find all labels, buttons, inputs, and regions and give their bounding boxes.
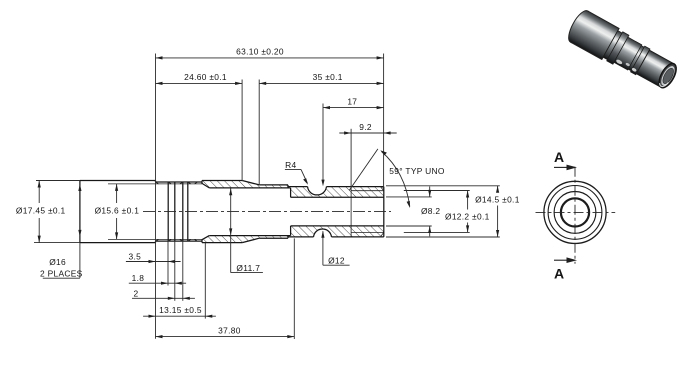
svg-text:A: A <box>554 149 564 165</box>
svg-text:Ø8.2: Ø8.2 <box>421 206 440 216</box>
svg-text:3.5: 3.5 <box>128 251 141 261</box>
svg-text:2 PLACES: 2 PLACES <box>40 268 83 278</box>
svg-text:17: 17 <box>347 97 357 107</box>
svg-text:Ø16: Ø16 <box>49 257 66 267</box>
svg-text:R4: R4 <box>285 160 296 170</box>
svg-text:24.60 ±0.1: 24.60 ±0.1 <box>184 72 227 82</box>
svg-text:Ø11.7: Ø11.7 <box>236 263 260 273</box>
svg-text:2: 2 <box>134 288 139 298</box>
svg-text:59° TYP UNO: 59° TYP UNO <box>389 166 445 176</box>
svg-text:1.8: 1.8 <box>132 273 145 283</box>
svg-text:9.2: 9.2 <box>359 122 372 132</box>
svg-text:Ø12.2 ±0.1: Ø12.2 ±0.1 <box>445 212 490 222</box>
svg-text:Ø12: Ø12 <box>328 255 345 265</box>
svg-text:Ø15.6 ±0.1: Ø15.6 ±0.1 <box>95 206 140 216</box>
svg-text:Ø14.5 ±0.1: Ø14.5 ±0.1 <box>475 195 520 205</box>
svg-text:35 ±0.1: 35 ±0.1 <box>313 72 343 82</box>
svg-text:A: A <box>554 266 564 282</box>
svg-text:13.15 ±0.5: 13.15 ±0.5 <box>159 305 202 315</box>
svg-text:63.10 ±0.20: 63.10 ±0.20 <box>236 47 284 57</box>
svg-text:37.80: 37.80 <box>218 326 241 336</box>
svg-text:Ø17.45 ±0.1: Ø17.45 ±0.1 <box>16 206 66 216</box>
